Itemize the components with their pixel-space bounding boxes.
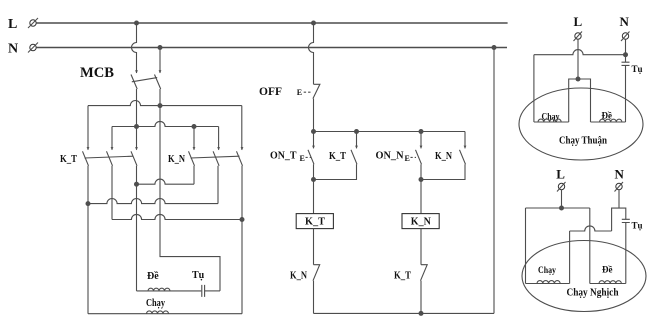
svg-text:K_N: K_N — [290, 270, 307, 282]
contactor K_T pole 1 — [87, 147, 90, 150]
wire coil K_N to NC — [420, 229, 422, 265]
wire KT c3 down to De branch — [136, 166, 138, 291]
node self-hold K_T — [311, 177, 316, 182]
wire bridge over windings (Thuan) — [569, 79, 591, 122]
wire N drop (Nghich) — [618, 190, 620, 208]
wire control bus — [314, 131, 466, 133]
svg-text:ON_N: ON_N — [376, 150, 404, 162]
wire L feed to MCB with hop over N rail — [132, 23, 137, 73]
svg-text:Đề: Đề — [602, 265, 613, 275]
contact K_N NC — [313, 265, 320, 281]
wire KT c1 down to bottom — [87, 166, 89, 314]
wire Chay winding run (Thuan) — [534, 121, 569, 123]
wire KN c2 down leg — [217, 166, 219, 204]
wire cap to De right (Nghich) — [625, 223, 627, 284]
contactor K_N pole 1 — [193, 147, 196, 150]
wire Chay winding run (Nghich) — [526, 283, 570, 285]
wire De branch right — [205, 290, 220, 292]
capacitor Tu plates — [202, 285, 205, 297]
svg-text:K_N: K_N — [168, 153, 185, 165]
wire N bridge (Nghich) — [612, 208, 626, 231]
wire control bottom run — [314, 312, 495, 314]
svg-text:L: L — [574, 14, 583, 29]
wire bottom run — [88, 313, 242, 315]
wire De winding run (Thuan) — [591, 121, 626, 123]
wire to coil K_N — [420, 180, 422, 214]
svg-text:N: N — [620, 14, 630, 29]
node junction L (Nghich) — [559, 206, 564, 211]
wire control feed with hop over N rail — [309, 23, 314, 84]
MCB tie bar — [132, 78, 157, 82]
coil K_N box — [402, 214, 439, 229]
wire cap to De (Thuan) — [625, 65, 627, 122]
wire crossover with hop (Nghich) — [570, 226, 612, 231]
coil K_T box — [296, 214, 333, 229]
svg-text:L: L — [556, 167, 565, 182]
node junction row1 — [158, 103, 163, 108]
node junction L-control — [311, 21, 316, 26]
contactor K_N pole 2 — [217, 147, 220, 150]
wire De branch left — [137, 290, 202, 292]
wire K_N aux bottom to node — [421, 164, 465, 179]
terminal N (Thuan) — [622, 33, 628, 39]
inductor Chay (Nghich) — [537, 281, 560, 284]
wire K_N aux top — [464, 132, 466, 149]
contact K_T aux — [355, 146, 358, 149]
wire N drop (Thuan) — [625, 39, 627, 62]
wire De winding run (Nghich) — [590, 283, 626, 285]
motor ellipse (Thuan) — [519, 88, 643, 160]
inductor Chay (Thuan) — [538, 119, 561, 122]
svg-text:Tụ: Tụ — [632, 64, 643, 74]
wire ON_T top — [313, 132, 315, 149]
svg-text:ON_T: ON_T — [270, 150, 297, 162]
wire row2 L-side with hop — [112, 121, 219, 126]
wire KN c1 top feed — [193, 127, 195, 150]
node junction N line (Thuan) — [623, 52, 628, 57]
node bus tap ON_N — [419, 129, 424, 134]
svg-text:N: N — [8, 42, 18, 57]
wire crossover left leg (Nghich) — [569, 231, 571, 284]
wire row2 left leg — [111, 127, 113, 150]
svg-text:MCB: MCB — [80, 65, 114, 81]
wire MCB L-pole down — [136, 89, 138, 150]
capacitor Tu (Nghich) — [622, 219, 630, 222]
capacitor Tu (Thuan) — [622, 62, 630, 65]
contact K_N aux — [464, 146, 467, 149]
svg-text:Tụ: Tụ — [192, 270, 205, 281]
inductor De (Thuan) — [600, 119, 622, 122]
wire N cross line with hop (Thuan) — [534, 50, 626, 55]
pushbutton ON_T — [312, 146, 315, 149]
node junction L to bridge (Thuan) — [576, 77, 581, 82]
wire N rail — [36, 47, 507, 49]
wire row1 N-side with hop — [88, 101, 242, 106]
svg-text:E: E — [297, 88, 302, 97]
pushbutton ON_N — [420, 146, 423, 149]
wire L rail — [36, 22, 507, 24]
wire to coil K_T — [313, 180, 315, 214]
wire rowA with hop — [137, 179, 195, 184]
contactor K_T pole 2 — [111, 147, 114, 150]
wire KT c2 down to rowC — [111, 166, 113, 220]
terminal L — [30, 20, 36, 26]
wire coil K_T to NC — [313, 229, 315, 265]
wire row1 left leg — [87, 106, 89, 150]
node junction N-MCB — [158, 45, 163, 50]
breaker MCB pole 2 — [159, 70, 162, 73]
node junction rowC right — [240, 217, 245, 222]
svg-text:E: E — [300, 154, 305, 163]
breaker MCB pole 1 — [135, 70, 138, 73]
node bus tap K_T aux — [354, 129, 359, 134]
svg-text:N: N — [615, 167, 625, 182]
terminal L (Thuan) — [575, 33, 581, 39]
node junction row2 at KN c1 — [192, 124, 197, 129]
node junction rowA left — [134, 182, 139, 187]
node junction L-MCB — [134, 21, 139, 26]
node self-hold K_N — [419, 177, 424, 182]
wire row1 right leg — [241, 106, 243, 150]
node junction row2 at L pole — [134, 124, 139, 129]
wire rowB with hops — [88, 199, 218, 204]
wire KN c1 down leg — [193, 166, 195, 184]
contactor K_T pole 3 — [135, 147, 138, 150]
wire rowC with hops — [112, 214, 242, 219]
contactor K_T tie bar — [85, 156, 134, 158]
terminal N — [30, 44, 36, 50]
inductor Chay winding — [147, 311, 169, 314]
svg-text:E: E — [405, 154, 410, 163]
svg-text:Chạy: Chạy — [538, 265, 556, 275]
svg-text:K_N: K_N — [435, 150, 452, 162]
motor ellipse (Nghich) — [522, 241, 646, 312]
wire N feed to MCB — [159, 48, 161, 74]
terminal N (Nghich) — [616, 183, 622, 189]
wire right leg to De left (Nghich) — [589, 208, 591, 284]
wire K_N NC bottom — [313, 281, 315, 314]
svg-text:K_N: K_N — [411, 216, 431, 228]
wire MCB N-pole down to De/Tu branch — [160, 89, 220, 291]
terminal L (Nghich) — [558, 183, 564, 189]
node junction rowB left — [86, 201, 91, 206]
wire L drop (Thuan) — [577, 39, 579, 79]
svg-text:K_T: K_T — [329, 150, 347, 162]
wire ON_T bottom — [313, 164, 315, 179]
wire ON_N bottom — [420, 164, 422, 179]
inductor De winding — [148, 288, 170, 291]
node control bottom junction — [419, 311, 424, 316]
wire row2 right leg — [218, 127, 220, 150]
wire KN c3 down to bottom — [241, 166, 243, 314]
contact K_T NC — [421, 265, 428, 281]
wire K_T aux top — [356, 132, 358, 149]
wire K_T NC bottom — [420, 281, 422, 314]
wire OFF to bus node — [313, 99, 315, 132]
wire L cross line (Nghich) — [526, 207, 590, 209]
svg-text:OFF: OFF — [259, 86, 282, 98]
svg-text:Tụ: Tụ — [632, 221, 643, 231]
wire left leg to Chay (Nghich) — [525, 208, 527, 284]
wire ON_N top — [420, 132, 422, 149]
wire N return — [493, 48, 495, 314]
svg-text:Chạy Thuận: Chạy Thuận — [559, 135, 607, 147]
svg-text:L: L — [8, 17, 17, 32]
svg-text:K_T: K_T — [60, 153, 78, 165]
contactor K_N tie bar — [191, 156, 240, 158]
wire L drop (Nghich) — [561, 190, 563, 208]
inductor De (Nghich) — [599, 281, 621, 284]
svg-text:K_T: K_T — [305, 216, 326, 228]
wire K_T aux bottom to node — [314, 164, 357, 179]
svg-text:Chạy Nghịch: Chạy Nghịch — [567, 287, 619, 299]
contactor K_N pole 3 — [241, 147, 244, 150]
svg-text:Chạy: Chạy — [146, 298, 165, 309]
node junction N-return — [492, 45, 497, 50]
node control bus — [311, 129, 316, 134]
wire left leg to Chay (Thuan) — [533, 55, 535, 122]
svg-text:K_T: K_T — [394, 270, 412, 282]
svg-text:Đề: Đề — [147, 271, 159, 282]
